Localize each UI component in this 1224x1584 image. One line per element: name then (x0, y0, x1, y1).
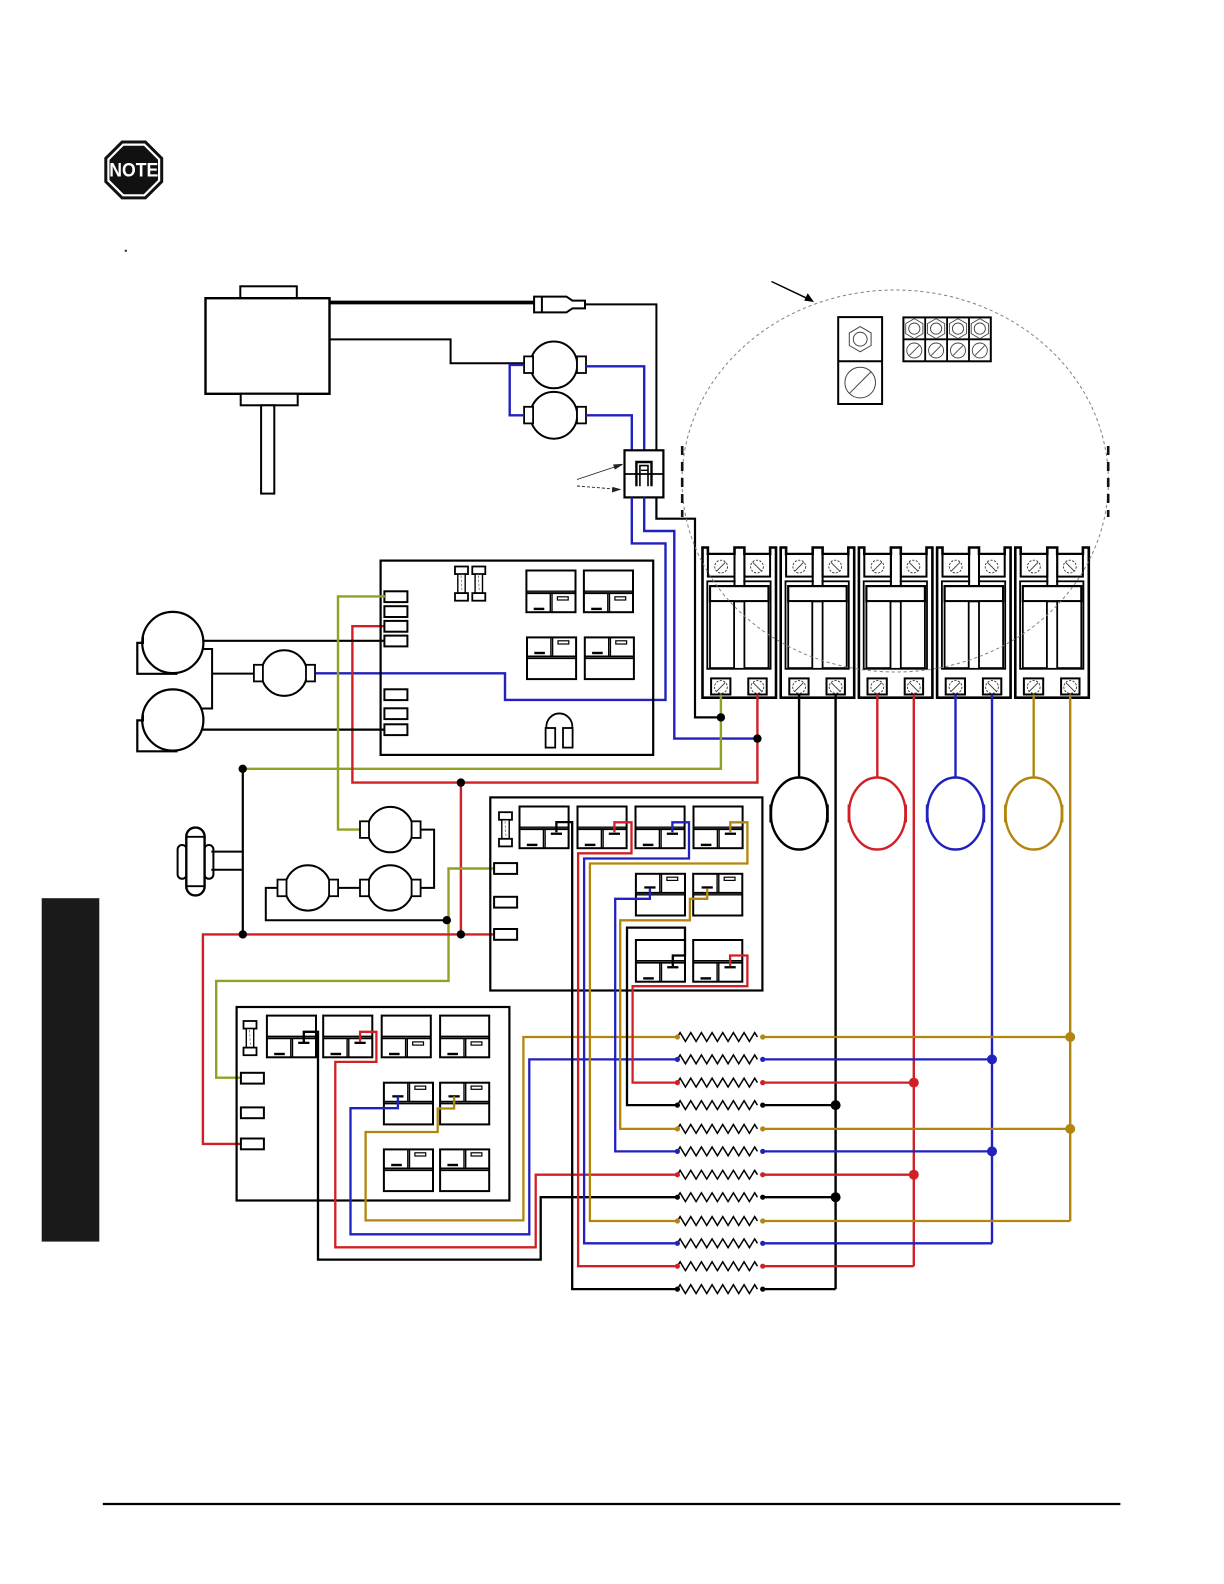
heating element HE9 (675, 1217, 766, 1226)
terminal A1-3 (384, 621, 407, 632)
circuit breaker CB3 (859, 548, 933, 698)
blower B2 (137, 689, 203, 751)
terminal A3-1 (241, 1073, 264, 1084)
heating element HE2 (675, 1055, 766, 1064)
wire lead to element HE10 (584, 822, 689, 1243)
blower B1 (137, 612, 203, 674)
heating element HE6 (675, 1147, 766, 1156)
heating element HE5 (675, 1125, 766, 1134)
leader arrow to panel (772, 282, 815, 303)
relay K9 (636, 874, 685, 916)
wire P1 to breaker CB1 feed (656, 497, 719, 717)
relay K3 (527, 637, 576, 679)
NOTE sign (104, 141, 163, 200)
junction (457, 778, 465, 786)
relay K20 (440, 1149, 489, 1191)
wire lead to element HE4 (627, 928, 685, 1106)
circuit breaker CB5 (1015, 548, 1089, 698)
wire element HE1 to bus (763, 1036, 1070, 1038)
stray period mark (125, 250, 127, 252)
wire lead to element HE2 (351, 1059, 678, 1234)
terminal A1-4 (384, 636, 407, 647)
terminal A1-1 (384, 591, 407, 602)
terminal A1-2 (384, 606, 407, 617)
junction (909, 1170, 919, 1180)
inline connector J1 (534, 297, 585, 313)
relay K12 (693, 940, 742, 982)
relay K18 (440, 1083, 489, 1125)
wire element HE12 to bus (763, 1288, 836, 1290)
control board A1 (381, 561, 654, 755)
relay K11 (636, 940, 685, 982)
wire pump stubs (211, 852, 243, 870)
receptacle R1 (black) (771, 778, 828, 850)
dashed panel outline (ellipse) (682, 290, 1108, 672)
bus wire from CB2 right (834, 695, 836, 1290)
junction (443, 916, 451, 924)
wire red branch to board A2 (460, 783, 462, 935)
mounting nut detail box (838, 317, 882, 404)
wire lead to element HE11 (578, 822, 677, 1266)
relay K5 (520, 807, 569, 849)
power board A2 (490, 797, 762, 990)
wire engine to solenoid F1 (330, 339, 525, 363)
motor M2 (360, 807, 421, 852)
wire M3 to olive junction (266, 888, 447, 920)
junction (909, 1078, 919, 1088)
wire P1 blue to motor M1 via board A1 (316, 497, 666, 700)
wire element HE5 to bus (763, 1128, 1070, 1130)
motor M1 (254, 650, 315, 696)
svg-text:NOTE: NOTE (109, 161, 158, 182)
terminal A1-6 (384, 708, 407, 719)
relay K16 (440, 1016, 489, 1058)
engine block E1 (206, 286, 330, 493)
junction (1065, 1032, 1075, 1042)
wire lead to element HE5 (620, 889, 707, 1129)
terminal A1-7 (384, 724, 407, 735)
wire olive A1 term1 to motor M2 (338, 596, 385, 829)
wire lead to element HE6 (615, 889, 677, 1152)
bus wire from CB4 right (991, 695, 993, 1244)
heating element HE7 (675, 1170, 766, 1179)
wire red to A2 term3 and A3 term3 (203, 934, 495, 1144)
circuit breaker CB4 (937, 548, 1011, 698)
wire connector J1 to plug P1 (585, 304, 656, 450)
junction (717, 713, 725, 721)
bus wire from CB3 right (913, 695, 915, 1267)
junction (831, 1192, 841, 1202)
fuse F4 (472, 567, 485, 601)
wire F1 to plug P1 (586, 366, 644, 450)
wire lead to element HE3 (633, 956, 748, 1083)
heating element HE10 (675, 1239, 766, 1248)
relay K19 (384, 1149, 433, 1191)
heating element HE1 (675, 1033, 766, 1042)
wire element HE3 to bus (763, 1081, 914, 1083)
fuse F5 (499, 812, 512, 846)
wire blower B1 to A1 term4 (203, 640, 385, 642)
wire lead to element HE7 (335, 1032, 677, 1248)
footer rule (103, 1503, 1121, 1505)
receptacle R3 (blue) (927, 778, 984, 850)
heating element HE3 (675, 1078, 766, 1087)
wire olive A2 term1 to A3 term1 (216, 869, 494, 1078)
receptacle R2 (red) (849, 778, 906, 850)
motor M4 (360, 865, 421, 910)
terminal A2-3 (494, 929, 517, 940)
circuit breaker CB2 (781, 548, 855, 698)
circuit breaker CB1 (703, 548, 777, 698)
wire element HE8 to bus (763, 1196, 836, 1198)
wire element HE4 to bus (763, 1104, 836, 1106)
wire CB2 left to receptacle (798, 695, 800, 779)
wire engine to inline connector (heavy) (330, 301, 535, 305)
junction (239, 765, 247, 773)
junction (987, 1054, 997, 1064)
relay K17 (384, 1083, 433, 1125)
relay K15 (382, 1016, 431, 1058)
terminal A2-2 (494, 897, 517, 908)
fuse F3 (455, 567, 468, 601)
terminal A3-3 (241, 1139, 264, 1150)
heating element HE12 (675, 1285, 766, 1294)
terminal A1-5 (384, 689, 407, 700)
wire P1 blue to junction on CB1 red (644, 497, 756, 738)
junction (831, 1100, 841, 1110)
wire F1 to F2 jumper (510, 365, 524, 415)
wire M3 to M4 (338, 887, 360, 889)
wire element HE9 to bus (763, 1220, 1070, 1222)
relay K14 (323, 1016, 372, 1058)
wire element HE11 to bus (763, 1265, 914, 1267)
relay K1 (526, 571, 575, 613)
receptacle R4 (yellow) (1005, 778, 1062, 850)
wire lead to element HE1 (366, 1037, 678, 1220)
heating element HE4 (675, 1101, 766, 1110)
solenoid F1 (524, 342, 586, 389)
wire element HE7 to bus (763, 1174, 914, 1176)
sidebar tab (42, 898, 100, 1241)
junction (753, 734, 761, 742)
wire element HE10 to bus (763, 1242, 992, 1244)
wire blower link (201, 649, 254, 709)
motor M3 (278, 865, 339, 910)
power board A3 (237, 1007, 510, 1201)
relay K6 (578, 807, 627, 849)
leader arrows to P1 (577, 464, 623, 492)
relay K7 (636, 807, 685, 849)
wire CB3 left to receptacle (876, 695, 878, 779)
wire lead to element HE9 (590, 822, 748, 1221)
junction (239, 930, 247, 938)
bold dash left edge (681, 446, 684, 517)
wire M2 to M4 (421, 830, 435, 888)
junction (457, 930, 465, 938)
relay K8 (694, 807, 743, 849)
wire element HE6 to bus (763, 1150, 992, 1152)
fuse F6 (244, 1021, 257, 1055)
terminal block TB1 (903, 317, 990, 361)
heating element HE8 (675, 1193, 766, 1202)
bus wire from CB5 right (1069, 695, 1071, 1222)
relay K10 (693, 874, 742, 916)
buzzer BZ1 (546, 713, 573, 747)
relay K13 (267, 1016, 316, 1058)
wire lead to element HE8 (304, 1032, 678, 1260)
connector P1 (625, 450, 664, 497)
relay K2 (584, 571, 633, 613)
wire CB1 right (red) (352, 626, 757, 782)
wire lead to element HE12 (556, 822, 677, 1289)
wire blower B2 to A1 term7 (202, 728, 385, 730)
fuel pump FP1 (178, 828, 214, 896)
wire CB4 left to receptacle (954, 695, 956, 779)
terminal A3-2 (241, 1107, 264, 1118)
wire black pump riser (242, 769, 244, 935)
bold dash right edge (1107, 446, 1110, 517)
relay K4 (585, 637, 634, 679)
wire element HE2 to bus (763, 1058, 992, 1060)
solenoid F2 (524, 392, 586, 439)
junction (987, 1146, 997, 1156)
wire CB1 left (olive) (243, 695, 721, 769)
terminal A2-1 (494, 863, 517, 874)
wire CB5 left to receptacle (1032, 695, 1034, 779)
wire F2 to plug P1 (586, 415, 632, 450)
heating element HE11 (675, 1262, 766, 1271)
junction (1065, 1124, 1075, 1134)
